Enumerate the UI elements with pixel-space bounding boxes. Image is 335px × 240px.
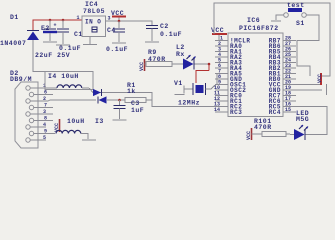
svg-text:14: 14 xyxy=(214,107,220,113)
svg-text:7: 7 xyxy=(44,103,47,109)
svg-text:Rx: Rx xyxy=(176,51,185,58)
svg-text:RC3: RC3 xyxy=(230,109,242,116)
svg-text:2: 2 xyxy=(43,96,46,102)
svg-text:R9: R9 xyxy=(148,49,157,56)
svg-text:10uH: 10uH xyxy=(67,118,85,125)
svg-text:C1: C1 xyxy=(74,31,83,38)
svg-text:IC6: IC6 xyxy=(247,17,260,24)
svg-text:1: 1 xyxy=(77,15,80,21)
svg-text:1uF: 1uF xyxy=(131,107,144,114)
svg-text:0.1uF: 0.1uF xyxy=(106,46,128,53)
svg-text:+: + xyxy=(54,23,57,29)
svg-text:15: 15 xyxy=(285,107,291,113)
svg-text:0.1uF: 0.1uF xyxy=(59,45,81,52)
svg-text:L2: L2 xyxy=(176,44,185,51)
svg-text:22uF 25V: 22uF 25V xyxy=(35,52,70,59)
svg-text:C4: C4 xyxy=(107,27,116,34)
svg-text:C3: C3 xyxy=(131,100,140,107)
svg-text:D1: D1 xyxy=(10,14,19,21)
svg-text:9: 9 xyxy=(44,129,47,135)
svg-text:4: 4 xyxy=(43,122,46,128)
svg-text:IN O: IN O xyxy=(85,19,101,26)
svg-text:0.1uF: 0.1uF xyxy=(160,31,182,38)
svg-text:1k: 1k xyxy=(127,88,136,95)
svg-text:test: test xyxy=(287,2,305,9)
svg-text:M5G: M5G xyxy=(296,116,309,123)
svg-text:S1: S1 xyxy=(296,20,305,27)
svg-text:12MHz: 12MHz xyxy=(178,100,200,107)
svg-text:I4 10uH: I4 10uH xyxy=(48,73,79,80)
svg-text:I3: I3 xyxy=(95,118,104,125)
svg-text:RC4: RC4 xyxy=(269,109,281,116)
svg-text:VCC: VCC xyxy=(211,27,224,34)
svg-text:470R: 470R xyxy=(254,124,272,131)
svg-text:VCC: VCC xyxy=(317,74,323,83)
svg-text:C2: C2 xyxy=(160,23,169,30)
svg-text:5: 5 xyxy=(43,135,46,141)
svg-text:PIC16F872: PIC16F872 xyxy=(239,25,279,32)
svg-text:6: 6 xyxy=(44,90,47,96)
svg-text:8: 8 xyxy=(44,116,47,122)
svg-text:3: 3 xyxy=(43,109,46,115)
svg-text:IC4: IC4 xyxy=(85,1,98,8)
svg-text:V1: V1 xyxy=(174,80,183,87)
svg-text:1N4007: 1N4007 xyxy=(0,40,26,47)
svg-text:78L05: 78L05 xyxy=(83,8,105,15)
